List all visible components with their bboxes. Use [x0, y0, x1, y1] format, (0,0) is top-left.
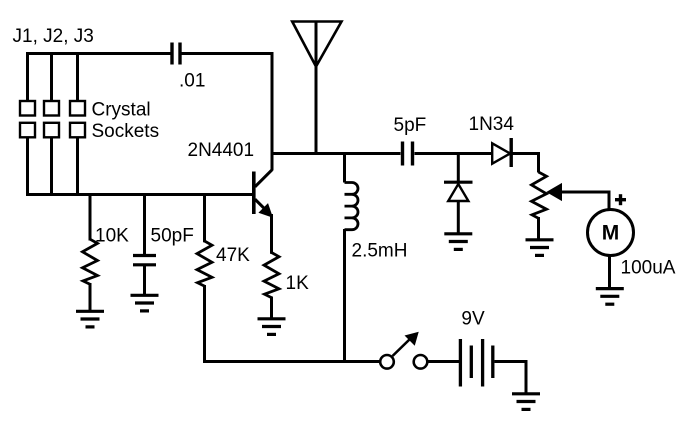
wire top rail from J1 bus to C1: [28, 52, 171, 55]
wire antenna drop: [315, 22, 318, 154]
wire J1 bottom drop: [26, 138, 29, 197]
diode D2 vertical: [444, 182, 473, 201]
antenna AN1: [292, 22, 341, 67]
wire J3 bottom drop: [76, 138, 79, 197]
wire R1 bottom lead: [89, 283, 92, 311]
crystal socket J2 pad top: [44, 101, 59, 116]
capacitor C3 5pF plates: [403, 142, 413, 166]
wire base rail: [26, 193, 252, 196]
ground for R1: [76, 311, 104, 327]
svg-text:2N4401: 2N4401: [188, 140, 255, 161]
ground for D2: [444, 234, 472, 250]
wire J1 top drop: [26, 52, 29, 101]
wire J3 top drop: [76, 54, 79, 101]
wire C3 to D1: [415, 152, 493, 155]
ground for M1: [596, 289, 624, 305]
svg-text:.01: .01: [179, 71, 205, 92]
wire R2 top lead: [203, 195, 206, 243]
svg-text:Crystal: Crystal: [92, 100, 151, 121]
meter M1 circle: [588, 210, 634, 256]
wire C2 bottom lead: [143, 265, 146, 295]
ground for BT1: [512, 394, 540, 410]
svg-text:9V: 9V: [461, 309, 485, 330]
wire bottom rail to switch: [203, 360, 381, 363]
potentiometer R4 zigzag: [532, 172, 547, 218]
wire L1 bottom lead to bottom rail: [343, 229, 346, 362]
svg-text:50pF: 50pF: [151, 225, 194, 246]
svg-text:M: M: [602, 222, 620, 245]
wire D2 top lead: [457, 154, 460, 182]
meter M1 plus sign: [615, 194, 626, 205]
wire collector rail: [272, 152, 401, 155]
battery BT1 9V plates: [460, 339, 492, 387]
wire D2 bottom lead: [457, 201, 460, 234]
crystal socket J1 pad bottom: [20, 123, 35, 138]
ground for R4: [526, 240, 554, 256]
capacitor C2 50pF plates: [133, 256, 156, 265]
wire wiper to meter: [559, 192, 609, 210]
switch SW1 blade: [393, 338, 412, 356]
ground for C2: [131, 295, 159, 311]
transistor Q1 emitter arrowhead: [260, 205, 272, 217]
resistor R3 1K zigzag: [264, 253, 279, 298]
wire R4 bottom lead: [537, 217, 540, 240]
svg-text:Sockets: Sockets: [92, 121, 160, 142]
wire meter to ground: [608, 255, 611, 289]
wire D1 to R4 corner: [513, 154, 539, 173]
svg-text:10K: 10K: [95, 225, 129, 246]
transistor Q1 2N4401: [254, 170, 272, 214]
wire J2 bottom drop: [50, 138, 53, 197]
resistor R1 10K zigzag: [83, 239, 98, 284]
ground for R3: [258, 319, 286, 335]
wire R2 bottom lead to bottom rail: [203, 285, 206, 363]
wire from C1 to collector node corner: [182, 54, 273, 171]
wire J2 top drop: [50, 54, 53, 101]
svg-text:J1, J2, J3: J1, J2, J3: [13, 26, 94, 47]
wire R1 top lead: [89, 195, 92, 241]
wire switch to battery: [428, 360, 460, 363]
wire emitter lead: [270, 214, 273, 254]
capacitor C1 .01 plates: [172, 43, 180, 65]
switch SW1 throw contact: [414, 355, 428, 369]
svg-text:1N34: 1N34: [469, 114, 515, 135]
svg-text:47K: 47K: [216, 245, 250, 266]
wire C2 top lead: [143, 195, 146, 256]
crystal socket J1 pad top: [20, 101, 35, 116]
wire R3 bottom lead: [270, 297, 273, 319]
inductor L1 2.5mH coil: [345, 183, 359, 230]
svg-text:5pF: 5pF: [394, 115, 427, 136]
wire battery to ground corner: [495, 362, 527, 394]
svg-text:1K: 1K: [286, 273, 310, 294]
crystal socket J3 pad bottom: [70, 123, 85, 138]
resistor R2 47K zigzag: [197, 241, 212, 286]
svg-text:100uA: 100uA: [621, 257, 676, 278]
wire L1 top lead: [343, 154, 346, 183]
crystal socket J3 pad top: [70, 101, 85, 116]
potentiometer R4 wiper arrowhead: [547, 184, 561, 201]
switch SW1 pole contact: [380, 355, 394, 369]
diode D1 1N34: [492, 138, 511, 167]
switch SW1 blade arrowhead: [406, 333, 419, 345]
crystal socket J2 pad bottom: [44, 123, 59, 138]
svg-text:2.5mH: 2.5mH: [352, 241, 408, 262]
